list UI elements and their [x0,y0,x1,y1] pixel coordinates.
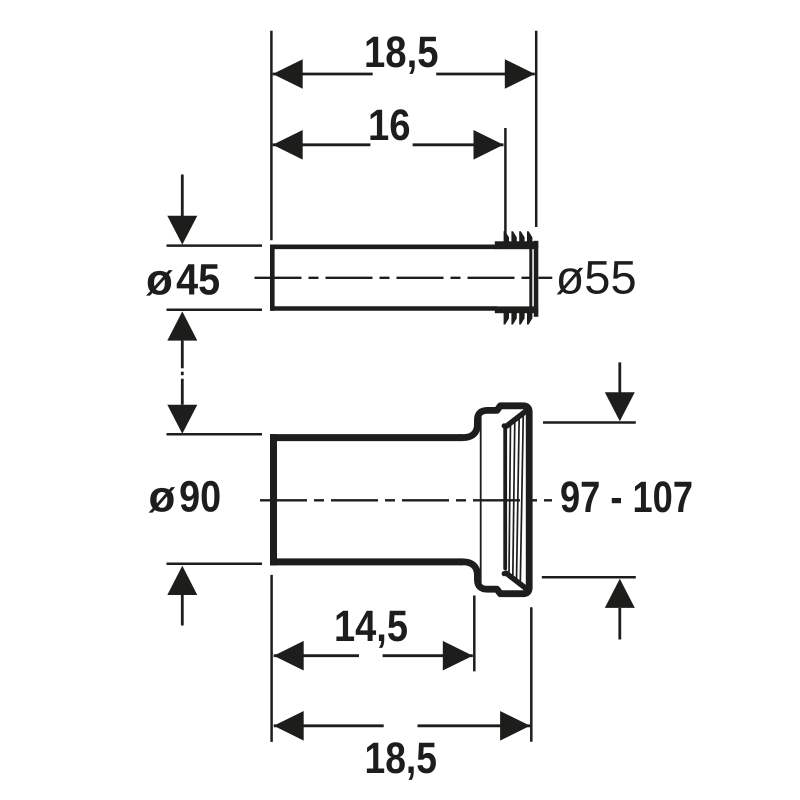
bottom pipe P2 left end edge [270,434,277,565]
gasket rib 2 [509,423,511,575]
gasket rib 3 [513,420,515,578]
bottom pipe P2 body top edge [270,434,463,441]
mid double arrow up head [167,311,197,340]
svg-text:ø: ø [149,472,176,521]
gasket rib 4 [517,416,520,580]
arrowhead 16 left [273,130,303,160]
dimension line 18,5 bottom left segment [274,724,384,727]
arrowhead 18,5 bottom right [500,711,530,741]
extension line top right 97-107 [543,421,636,424]
gasket main rib [503,427,507,569]
svg-text:90: 90 [179,472,221,521]
97-107 upper arrow stem [618,362,621,392]
mid double arrow stem upper [181,341,184,369]
dia90 lower arrow stem [181,595,184,626]
arrowhead 14,5 left [274,641,304,671]
arrowhead 18,5 top right [505,59,535,89]
top pipe P1 thread band bottom [495,306,538,313]
dimension line 18,5 bottom right segment [418,724,531,727]
svg-text:97 - 107: 97 - 107 [560,473,693,522]
mid double arrow stem lower [181,379,184,405]
extension line right of 18,5 top [535,31,538,227]
extension line right of 14,5 [473,596,476,672]
centerline of top pipe [255,277,553,279]
top pipe P1 body top edge [270,245,497,250]
svg-text:16: 16 [368,101,411,150]
top pipe P1 right end outer face [534,241,539,317]
dimension line 18,5 top right segment [436,73,535,76]
thread teeth bottom [504,313,533,325]
dia45 upper arrow stem [181,175,184,218]
gasket top chamfer [506,411,526,426]
svg-text:45: 45 [176,256,220,305]
dia45 upper arrowhead pointing down [167,216,197,245]
97-107 lower arrow stem [618,608,621,640]
extension line bottom of dia 45 [167,309,263,312]
dimension line 16 right segment [413,143,504,146]
svg-text:18,5: 18,5 [364,28,439,77]
arrowhead 16 right [474,130,504,160]
socket inner wall line [480,415,482,586]
thread teeth top [504,231,533,242]
arrowhead 18,5 top left [273,59,303,89]
bottom pipe P2 body bottom edge [270,558,463,565]
top pipe P1 body bottom edge [270,306,497,311]
extension line top of dia 90 [167,433,263,436]
dimension line 14,5 right segment [383,654,473,657]
socket outer profile [459,406,529,594]
mid double arrow stem dot [181,372,184,376]
dia90 lower arrowhead pointing up [167,566,197,595]
svg-text:18,5: 18,5 [365,734,438,783]
97-107 upper arrowhead pointing down [605,392,635,421]
arrowhead 14,5 right [443,641,473,671]
extension line right of 16 [504,128,507,236]
extension line bottom of dia 90 [167,562,263,565]
extension line left of 14,5/18,5 bottom [270,575,273,742]
arrowhead 18,5 bottom left [274,711,304,741]
mid double arrow down head [167,405,197,434]
extension line top of dia 45 [167,244,263,247]
gasket rib 5 [520,413,523,583]
dimension line 18,5 top left segment [273,73,373,76]
top pipe P1 right end inner face line [529,249,532,307]
gasket bottom bump [502,571,507,576]
svg-text:ø55: ø55 [556,250,637,303]
extension line right of 18,5 bottom [530,607,533,741]
centerline of bottom pipe [260,499,552,501]
gasket bottom chamfer [506,573,526,588]
dimension line 14,5 left segment [274,654,359,657]
extension line bottom right 97-107 [542,576,636,579]
svg-text:14,5: 14,5 [334,602,408,651]
extension line left of 18,5/16 [270,31,273,240]
top pipe P1 thread band top [495,241,538,249]
dimension line 16 left segment [273,143,371,146]
svg-text:ø: ø [146,256,173,305]
gasket top bump [502,423,507,428]
top pipe P1 left end edge [270,245,275,311]
97-107 lower arrowhead pointing up [605,579,635,608]
